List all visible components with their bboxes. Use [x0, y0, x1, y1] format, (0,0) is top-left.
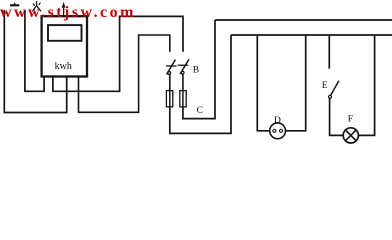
kWh meter A box — [42, 16, 87, 76]
wire inner distribution line — [231, 34, 392, 36]
wire meter terminal 4 over to switch B left pole top contact — [79, 35, 170, 112]
node label 零 (neutral) tick — [14, 3, 16, 6]
fuse C1 wire through — [169, 91, 171, 107]
switch B left pole blade — [167, 60, 176, 75]
wire switch E down to lamp F — [330, 98, 344, 135]
supply direction arrow shaft — [63, 6, 65, 17]
kWh meter display window — [48, 25, 82, 41]
wire live supply (second left) down to meter terminal 1 — [25, 10, 44, 91]
wire socket D branch left drop — [257, 35, 269, 131]
socket D pin hole left — [273, 129, 276, 132]
wire neutral supply (left) down to meter terminal 3 — [4, 10, 66, 113]
wire lamp F right side up to inner line — [358, 35, 374, 135]
lamp F cross stroke 1 — [346, 130, 357, 141]
node label 火 (live) center stroke with legs — [32, 1, 41, 11]
switch E blade — [331, 81, 339, 96]
socket D pin hole right — [279, 129, 282, 132]
wire switch B left pole to fuse C1 — [169, 74, 171, 90]
wire outer distribution line — [215, 19, 392, 21]
socket D body — [270, 123, 286, 139]
wire meter terminal 2 up and over to switch B right pole top contact — [53, 16, 183, 91]
lamp F bulb — [343, 128, 358, 143]
node label 火 (live) right dot — [39, 3, 41, 5]
switch B right pole blade — [180, 59, 189, 74]
wire switch B right pole to fuse C2 — [182, 74, 184, 91]
fuse C2 body — [180, 91, 186, 107]
switch B right pole contact bar — [178, 64, 189, 66]
wire fuse C2 down and right up to outer distribution line — [183, 20, 215, 119]
kWh meter bottom edge (thick) — [41, 76, 89, 78]
switch B left pole contact bar — [166, 65, 177, 67]
switch B right pole pivot — [181, 71, 184, 74]
switch B left pole pivot — [168, 72, 171, 75]
switch E pivot — [329, 95, 332, 98]
wire switch E branch drop from inner line — [328, 35, 330, 69]
node label 火 (live) left dot — [33, 3, 35, 5]
lamp F cross stroke 2 — [346, 130, 357, 141]
node label 零 (neutral) top bar — [10, 4, 19, 6]
fuse C2 wire through — [182, 91, 184, 107]
supply direction arrow head — [62, 2, 66, 8]
wire socket D branch right side — [286, 35, 306, 131]
fuse C1 body — [166, 91, 172, 107]
wire fuse C1 down and right up to inner distribution line — [170, 35, 231, 133]
